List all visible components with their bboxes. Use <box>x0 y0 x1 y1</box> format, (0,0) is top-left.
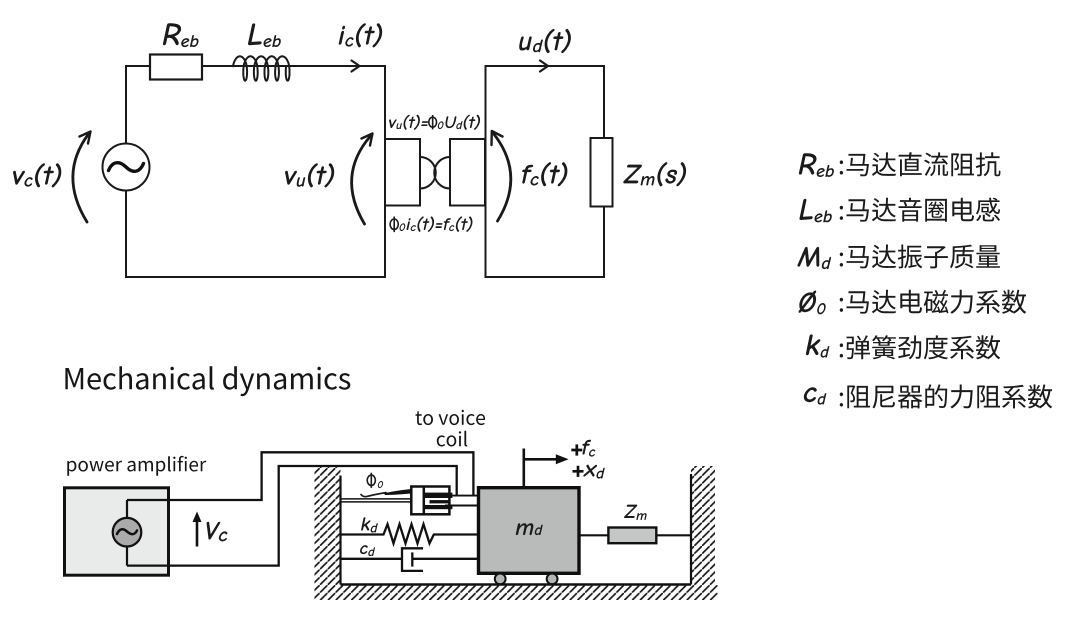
power amplifier box <box>65 488 169 575</box>
wire Zm to wall <box>656 534 691 536</box>
label Zm mech <box>624 505 647 520</box>
impedance Zm box mech <box>608 528 656 544</box>
label Zm(s) <box>623 162 686 186</box>
wire amp to coil bottom <box>169 466 457 566</box>
spring kd <box>341 524 479 543</box>
label phi0 mech <box>367 473 383 488</box>
wire left loop <box>126 66 385 277</box>
label +fc <box>571 440 595 457</box>
phi0 swoosh <box>361 489 421 497</box>
voice coil former rod <box>341 499 412 502</box>
wire mass to Zm <box>579 534 608 536</box>
wire right loop <box>486 66 605 277</box>
right wall hatch <box>691 466 715 585</box>
label power amplifier <box>67 456 206 476</box>
transducer left winding <box>385 139 420 206</box>
legend line 6 <box>804 384 1052 408</box>
label Leb <box>248 23 281 47</box>
heading Mechanical dynamics <box>65 366 350 396</box>
voltage source vc <box>103 144 150 191</box>
label phi0 ic equals fc <box>390 216 472 232</box>
impedance Zm(s) box <box>591 138 613 207</box>
voice coil assembly <box>411 487 452 515</box>
label md <box>516 523 543 535</box>
label ic(t) <box>339 23 383 47</box>
floor hatch <box>315 585 718 601</box>
legend line 2 <box>799 198 1000 223</box>
label Reb <box>163 23 199 47</box>
wheel left <box>495 574 506 585</box>
label +xd <box>573 465 605 479</box>
amp inner wires <box>127 500 169 566</box>
arrow fc polarity <box>492 131 511 221</box>
label vu equals phi0 ud <box>389 115 480 130</box>
legend line 1 <box>799 152 1001 177</box>
label vc(t) <box>13 163 61 187</box>
force reference arrow <box>524 449 569 488</box>
arrow vc polarity <box>73 132 91 223</box>
mass md <box>479 488 580 574</box>
amp source sine <box>117 529 137 534</box>
left wall line <box>339 476 341 585</box>
label ud(t) <box>519 29 571 53</box>
label Vc <box>207 522 228 542</box>
legend line 4 <box>799 290 1027 315</box>
wire amp to coil top <box>169 452 474 500</box>
left wall hatch <box>315 466 341 585</box>
arrow Vc <box>193 512 202 547</box>
label kd <box>361 517 378 532</box>
transducer right winding <box>450 139 485 206</box>
legend line 5 <box>806 334 1000 359</box>
floor line <box>341 583 692 585</box>
legend line 3 <box>798 245 1000 270</box>
wheel right <box>547 574 558 585</box>
label fc(t) <box>522 162 567 186</box>
label to voice coil <box>416 410 486 447</box>
source sine <box>109 163 144 172</box>
inductor Leb <box>233 56 290 80</box>
current arrow ic <box>352 61 360 72</box>
current arrow ud <box>540 61 548 72</box>
label vu(t) <box>285 163 334 187</box>
damper cd <box>341 548 479 571</box>
transducer coupling arcs <box>420 157 450 189</box>
resistor Reb <box>150 55 202 80</box>
arrow vu polarity <box>352 134 373 225</box>
amp source circle <box>113 518 142 547</box>
right wall line <box>690 474 692 585</box>
coil to mass rod <box>445 496 479 506</box>
label cd <box>360 545 375 556</box>
